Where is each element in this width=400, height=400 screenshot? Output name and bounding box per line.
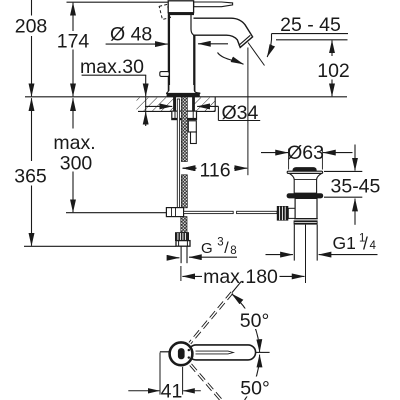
svg-text:/: /: [363, 234, 368, 254]
dimension D34 arrows over hatch: [145, 97, 218, 112]
hose ribbed connector: [175, 233, 188, 241]
G3/8 tail pipe: [180, 246, 182, 263]
lever slot dark: [178, 348, 185, 359]
dimension 208: [31, 0, 33, 96]
waste neck cone: [289, 173, 321, 193]
lower 50 arc: [245, 355, 260, 400]
threaded shank: [174, 97, 195, 111]
drain lever connector: [288, 208, 295, 218]
svg-text:3: 3: [217, 237, 223, 249]
svg-text:max.180: max.180: [203, 266, 278, 288]
hose below clamp: [181, 217, 187, 233]
label 50 upper: [237, 309, 272, 330]
dimension 25-45 leader: [267, 34, 348, 57]
horizontal rod segment 1: [184, 211, 234, 213]
baseline 365 hose end: [24, 245, 176, 247]
spout: [194, 18, 253, 47]
waste nut band: [294, 220, 318, 224]
waste pipe centerline: [305, 225, 307, 283]
hose fitting nub upper: [188, 121, 196, 132]
svg-text:102: 102: [317, 60, 350, 82]
max30 line through counter: [145, 97, 147, 112]
svg-text:max.30: max.30: [80, 56, 144, 78]
spout swivel arrow curved: [218, 53, 244, 65]
svg-text:max.: max.: [53, 132, 95, 154]
svg-text:8: 8: [230, 245, 236, 257]
reference line lever top: [67, 1, 168, 3]
dimension 174: [72, 3, 74, 97]
circle dots: [188, 349, 190, 351]
flexible hose braid column upper: [181, 97, 187, 162]
dimension 116: [183, 167, 248, 169]
upper 50 arc: [232, 294, 260, 352]
pop-up rod knob: [160, 72, 169, 77]
waste rubber seal: [287, 193, 324, 198]
svg-text:25 - 45: 25 - 45: [280, 14, 341, 36]
svg-text:50°: 50°: [240, 310, 270, 332]
dimension max180: [181, 266, 305, 281]
svg-text:41: 41: [161, 381, 183, 400]
locknut: [172, 111, 197, 120]
dimension D48 leader: [106, 43, 168, 45]
waste flange plate: [287, 171, 322, 173]
angle centerline: [256, 351, 270, 353]
dimension 365: [31, 98, 33, 246]
cartridge base band: [168, 13, 194, 15]
svg-text:Ø63: Ø63: [287, 142, 324, 164]
svg-text:4: 4: [370, 240, 377, 252]
svg-text:365: 365: [14, 166, 47, 188]
water stream line: [248, 43, 265, 66]
waste tail pipe: [293, 225, 295, 261]
handle ghost dashed rect: [159, 4, 170, 19]
counter hatching: [137, 98, 216, 111]
dimension G3/8 leader: [168, 256, 237, 259]
svg-text:Ø34: Ø34: [222, 102, 259, 124]
baseline max300 rod level: [66, 212, 167, 214]
drain lever knob: [277, 206, 289, 221]
spout swivel arrow left: [198, 43, 228, 45]
dimension 102: [276, 40, 348, 97]
waste plug dome: [293, 168, 316, 172]
horizontal rod segment 2: [237, 211, 277, 213]
hose end nut: [176, 241, 190, 247]
label 50 lower: [237, 377, 273, 397]
waste joint line: [294, 218, 318, 220]
lever: [194, 2, 233, 7]
svg-text:50°: 50°: [240, 378, 270, 400]
svg-text:300: 300: [60, 152, 93, 174]
body left edge: [168, 15, 170, 93]
handle bar slot: [196, 351, 234, 354]
body right neck: [191, 15, 194, 35]
counter bottom line: [138, 110, 215, 112]
spout outlet extension line: [247, 48, 249, 176]
counter right edge: [214, 97, 216, 112]
dimension max30 leader: [82, 75, 147, 126]
waste body: [295, 198, 317, 218]
handle swing dashed lower: [190, 364, 223, 400]
dimension 116 left arrow over hose: [183, 167, 197, 169]
rod clamp: [166, 208, 183, 217]
hose fitting nub lower: [191, 132, 197, 144]
dimension D34: [145, 106, 260, 120]
svg-text:208: 208: [15, 15, 48, 37]
svg-text:G1: G1: [333, 233, 356, 253]
handle swing dashed upper: [189, 292, 233, 344]
dimension D63: [261, 149, 353, 170]
flexible hose braid column lower: [181, 175, 187, 208]
svg-text:174: 174: [57, 30, 90, 52]
svg-text:Ø 48: Ø 48: [110, 24, 152, 46]
svg-text:G: G: [201, 240, 213, 257]
cartridge: [168, 1, 193, 13]
dimension 41: [128, 353, 201, 395]
top view body circle: [170, 342, 193, 365]
body right edge: [193, 35, 195, 93]
dimension 35-45: [324, 145, 362, 225]
handle ghost inner dash: [181, 2, 188, 7]
dimension max300: [72, 98, 74, 212]
rod stub top view: [160, 351, 169, 353]
base flange: [167, 85, 200, 93]
spout aerator line: [239, 35, 251, 45]
dimension G1 1/4 leader: [266, 254, 378, 256]
top view handle bar: [189, 345, 256, 360]
svg-text:35-45: 35-45: [331, 176, 381, 198]
svg-text:116: 116: [199, 159, 230, 181]
counter top surface line: [25, 96, 347, 98]
pop-up rod vertical: [177, 99, 179, 210]
svg-text:/: /: [224, 240, 229, 257]
